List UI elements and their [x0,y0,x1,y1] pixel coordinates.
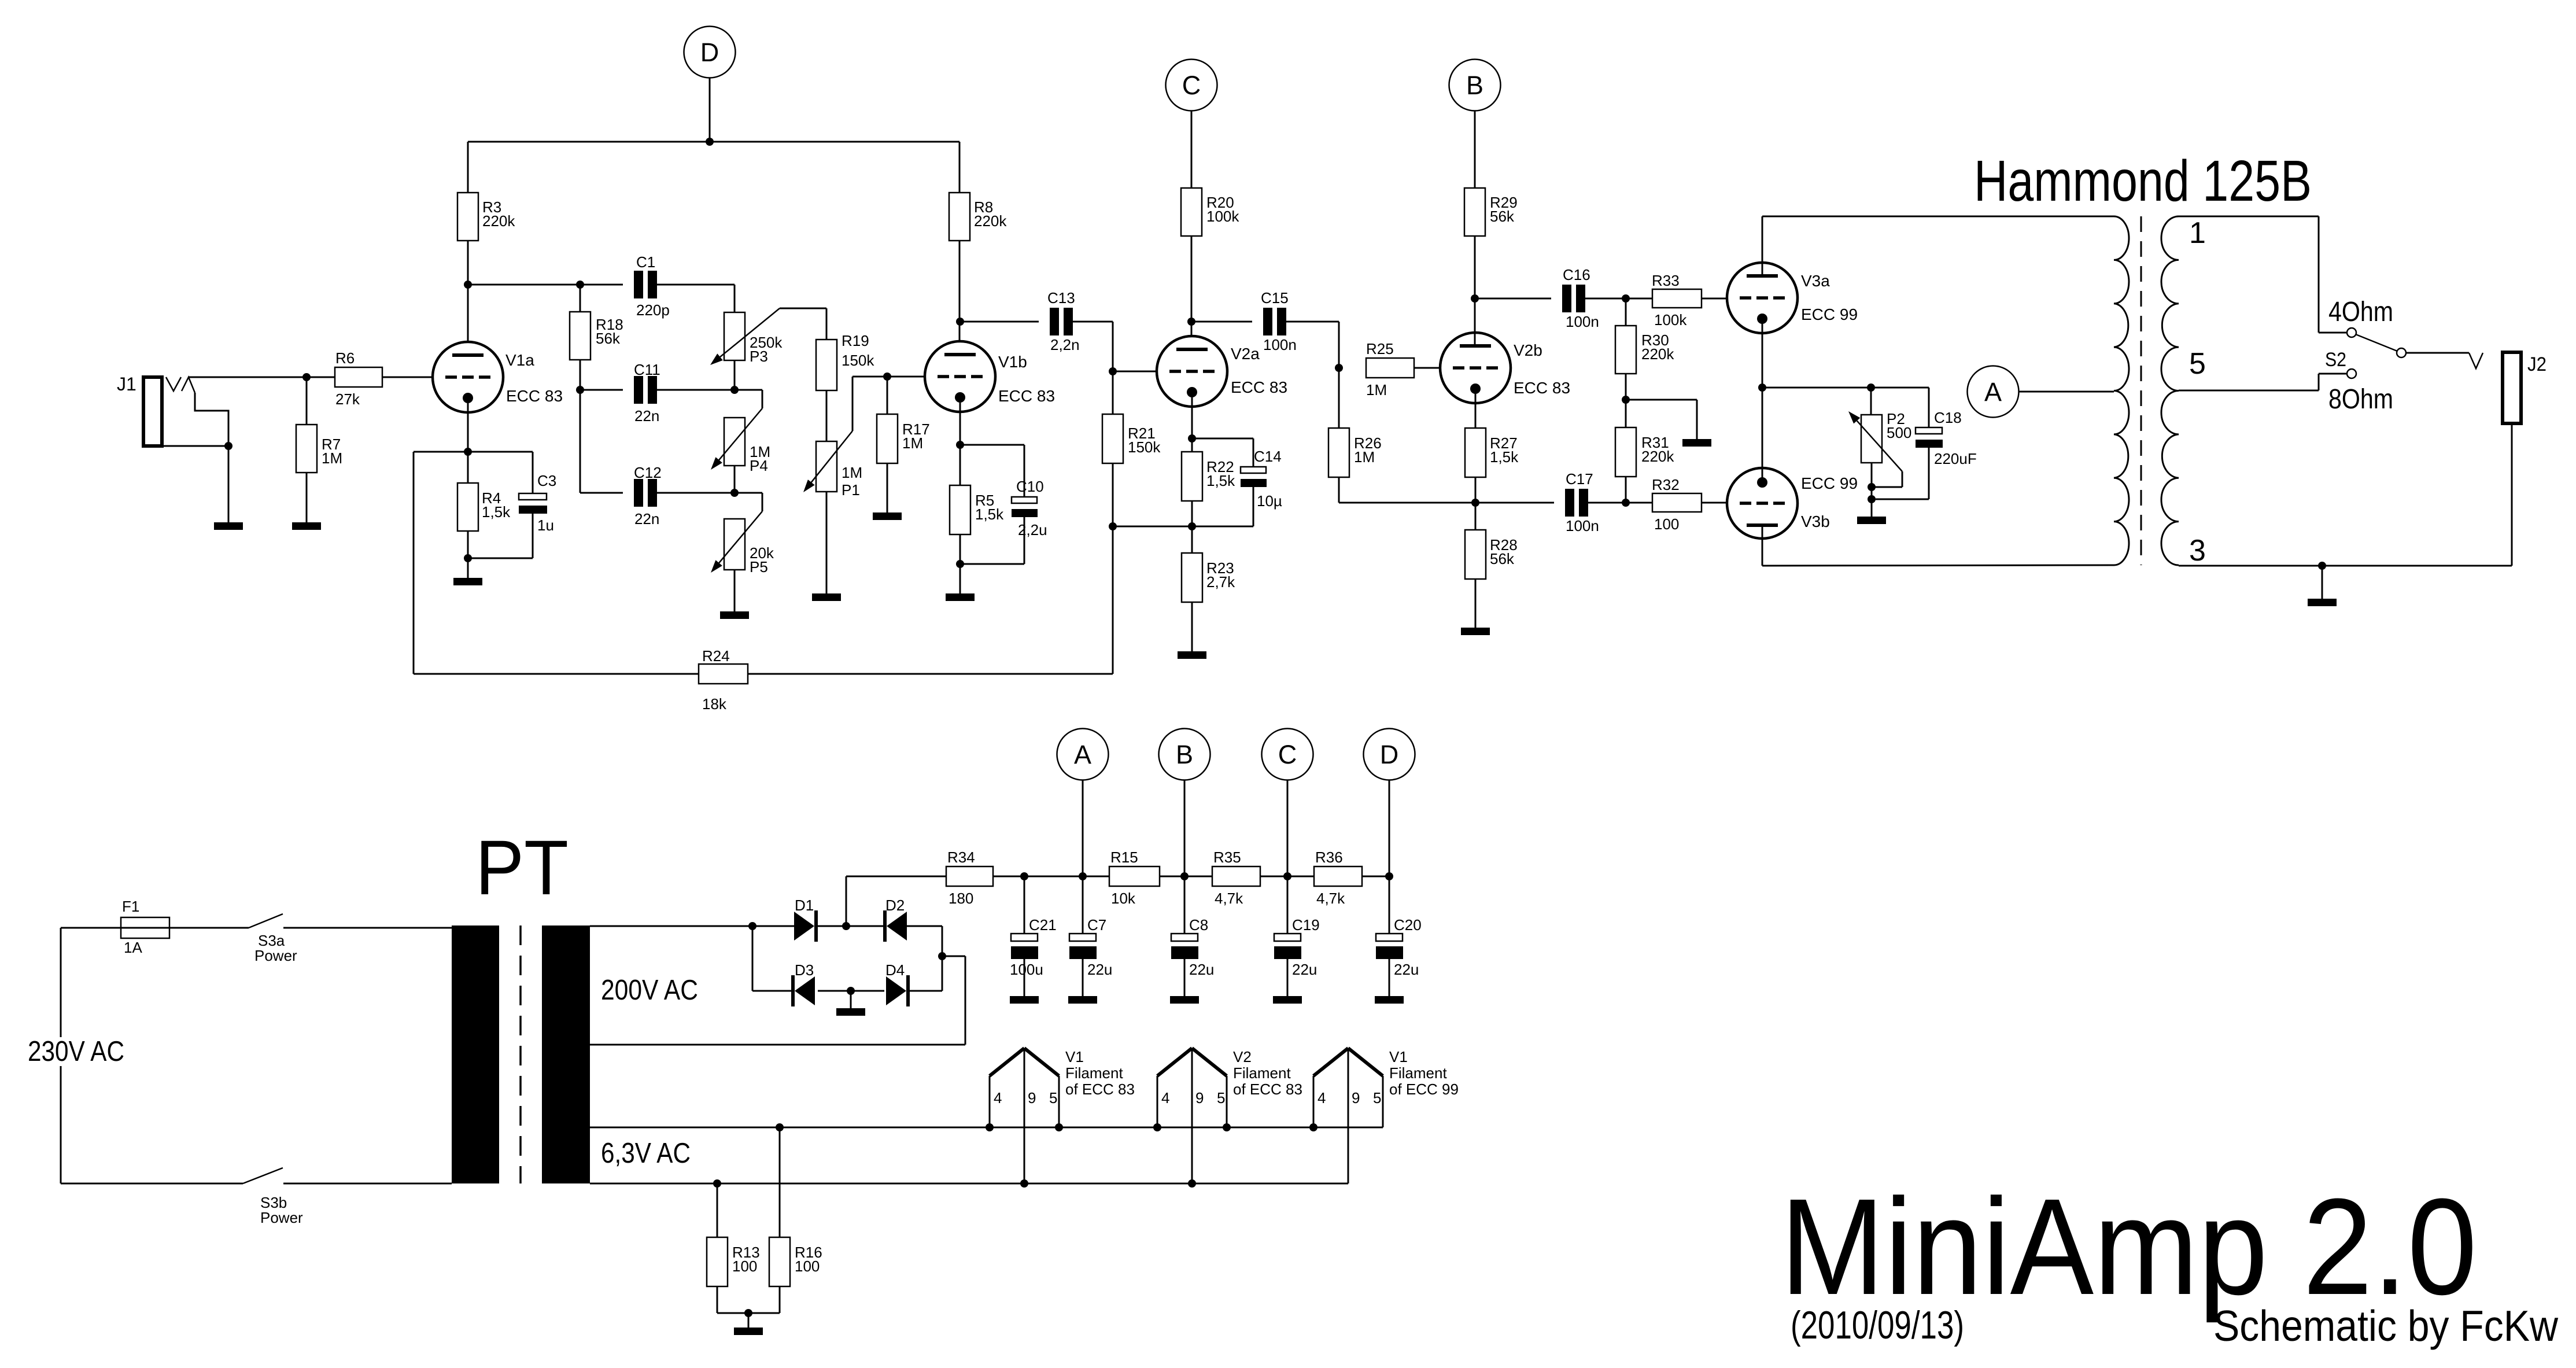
svg-text:5: 5 [1373,1089,1381,1107]
wire [826,390,828,441]
label V1 Filament of ECC 99 [1389,1048,1459,1098]
tube V1a [433,342,503,412]
label R20 100k [1206,194,1239,225]
label C1 220p [636,253,670,319]
label pins 4 9 5 [994,1089,1057,1107]
resistor R32 [1652,493,1702,512]
wire [959,403,961,485]
node [956,318,964,326]
svg-text:1A: 1A [124,939,142,956]
wire [590,925,795,927]
wire [1073,322,1169,371]
diode D4 [886,975,910,1006]
wire [1287,959,1289,996]
svg-text:V1: V1 [1065,1048,1084,1065]
svg-text:ECC 83: ECC 83 [506,387,563,405]
wire [1339,477,1554,503]
svg-text:22u: 22u [1189,961,1214,978]
svg-text:R24: R24 [702,647,730,665]
wire [1191,236,1193,349]
node [744,1309,752,1317]
svg-text:Filament: Filament [1065,1064,1123,1082]
node [1180,872,1189,880]
wire [580,360,581,493]
label R15 10k [1110,849,1138,907]
resistor R26 [1328,368,1349,477]
svg-text:10k: 10k [1111,890,1136,907]
svg-text:of ECC 99: of ECC 99 [1389,1081,1459,1098]
svg-text:4,7k: 4,7k [1215,890,1243,907]
svg-text:150k: 150k [842,352,874,369]
resistor R29 [1464,188,1485,236]
node [464,281,472,289]
wire [1160,876,1212,877]
wire [61,928,243,1183]
node [956,560,964,568]
label R16 100 [795,1244,822,1275]
label C7 22u [1087,916,1112,978]
svg-text:of ECC 83: of ECC 83 [1065,1081,1135,1098]
ground [1857,517,1886,524]
wire [162,445,228,447]
resistor R22 [1182,452,1202,501]
node [1309,1123,1317,1131]
wire [1184,959,1186,996]
svg-text:22n: 22n [634,510,659,528]
resistor R3 [457,193,478,241]
svg-text:500: 500 [1887,424,1911,441]
filament V1 (ECC 83) [990,1048,1059,1183]
label D1 [795,897,814,914]
svg-text:56k: 56k [1490,208,1515,225]
svg-text:100u: 100u [1010,961,1043,978]
transformer T1 primary winding [2114,216,2129,565]
wire [195,393,228,446]
node [1622,396,1630,404]
svg-text:8Ohm: 8Ohm [2328,384,2393,415]
wire [468,284,623,286]
wire [748,526,1113,674]
svg-text:S2: S2 [2325,349,2346,371]
resistor R27 [1465,428,1486,477]
wire [657,492,735,494]
label R7 1M [322,436,342,467]
label date 2010/09/13 [1791,1303,1964,1347]
capacitor C20 [1376,876,1403,959]
wire [960,517,1024,564]
wire [467,403,469,452]
wire [1702,502,1740,504]
svg-text:B: B [1466,71,1483,100]
label R21 150k [1128,425,1161,456]
ground [812,593,841,601]
node [1153,1123,1161,1131]
net label A (supply node A) [1968,366,2019,418]
svg-text:220k: 220k [482,212,515,230]
wire [1585,298,1652,300]
svg-text:56k: 56k [596,330,621,347]
label MiniAmp 2.0 title [1780,1170,2477,1323]
label R34 180 [947,849,975,907]
node [842,922,850,930]
wire [734,570,736,611]
svg-text:9: 9 [1028,1089,1036,1107]
label C3 1u [537,472,556,534]
label pin 5 [2189,347,2206,381]
capacitor C13 [1050,308,1073,335]
resistor R21 [1102,371,1123,463]
wire [1414,367,1453,369]
label R26 1M [1354,434,1382,466]
wire [1191,602,1193,651]
label R33 100k [1652,272,1687,329]
net label C (to node C) [1262,729,1313,780]
svg-text:1,5k: 1,5k [1206,472,1235,489]
svg-text:C21: C21 [1029,916,1057,934]
svg-text:Power: Power [260,1209,303,1226]
net label D (supply node D) [684,27,736,78]
svg-text:R33: R33 [1652,272,1680,289]
svg-text:V2a: V2a [1231,345,1260,363]
svg-text:56k: 56k [1490,550,1515,567]
node [706,138,714,146]
wire [468,514,533,558]
svg-text:C18: C18 [1934,409,1962,426]
svg-text:P3: P3 [750,348,768,365]
tube V3b [1727,468,1798,539]
wire [1876,448,1929,499]
wire [960,321,1039,323]
transformer T1 core [2140,216,2142,565]
svg-text:5: 5 [1217,1089,1225,1107]
svg-text:Schematic by FcKw: Schematic by FcKw [2213,1301,2559,1350]
resistor R25 [1366,358,1414,378]
resistor R30 [1615,298,1636,374]
svg-text:C17: C17 [1566,470,1593,488]
label V2a ECC 83 [1231,345,1287,396]
svg-text:of ECC 83: of ECC 83 [1233,1081,1302,1098]
capacitor C8 [1171,876,1198,959]
wire [2322,566,2323,599]
wire [1762,216,1763,276]
wire [580,492,623,494]
label pins 4 9 5 [1161,1089,1225,1107]
wire [734,466,736,493]
diode D3 [791,975,815,1006]
capacitor C21 [1011,876,1038,959]
svg-text:V1: V1 [1389,1048,1408,1065]
wire [959,564,961,593]
wire [1082,959,1084,996]
wire [1475,477,1477,530]
label D3 [795,961,814,979]
svg-text:C11: C11 [634,361,660,378]
wire [1082,780,1084,876]
svg-text:100: 100 [732,1258,757,1275]
label pin 3 [2189,534,2206,567]
label C15 100n [1261,289,1297,353]
svg-text:R35: R35 [1213,849,1241,866]
ground [214,522,243,530]
svg-text:A: A [1074,740,1091,769]
label P4 1M [750,443,770,474]
svg-text:R25: R25 [1366,340,1394,357]
wire [780,308,826,340]
svg-text:2,7k: 2,7k [1206,573,1235,591]
node [1188,434,1196,443]
wire [735,390,762,408]
svg-text:1M: 1M [842,464,862,481]
label pin 1 [2189,216,2206,250]
potentiometer P1 [803,431,852,492]
wire [382,377,445,378]
svg-text:D1: D1 [795,897,814,914]
wire [189,377,335,378]
label R25 1M [1366,340,1394,399]
diode D2 [883,910,907,942]
label pins 4 9 5 [1317,1089,1381,1107]
tube V1b [925,341,995,412]
node [883,373,891,381]
ground [2308,599,2337,606]
svg-text:A: A [1984,377,2002,407]
svg-text:1u: 1u [537,517,554,534]
svg-text:2,2n: 2,2n [1050,336,1080,353]
label P5 20k [750,544,774,576]
svg-text:ECC 83: ECC 83 [998,387,1055,405]
ground [836,1008,865,1016]
ground [1461,628,1490,635]
capacitor C11 [634,376,657,404]
wire [850,991,852,1008]
label R19 150k [842,332,874,369]
node [1758,384,1766,392]
node [2318,562,2326,570]
wire [1475,298,1551,300]
svg-text:C20: C20 [1394,916,1422,934]
label P1 1M [842,464,862,499]
label R6 27k [335,349,360,408]
resistor R20 [1181,188,1202,236]
svg-text:22u: 22u [1292,961,1317,978]
node [730,489,739,497]
wire [2179,374,2347,390]
label R18 56k [596,316,623,347]
wire [1389,780,1390,876]
svg-text:Hammond 125B: Hammond 125B [1974,149,2312,213]
label C13 2,2n [1047,289,1080,353]
svg-text:R6: R6 [335,349,355,367]
ground [1682,439,1711,447]
filament V2 (ECC 83) [1157,1048,1227,1183]
switch S3b [243,1168,283,1183]
svg-text:V1a: V1a [505,351,534,369]
svg-text:220p: 220p [636,301,670,319]
potentiometer P3 [710,308,780,365]
transformer PT core gap [519,925,522,1183]
node [1868,483,1876,491]
svg-text:V2: V2 [1233,1048,1252,1065]
label J1 [117,374,136,394]
ground [453,578,482,585]
label C11 22n [634,361,660,425]
svg-text:C8: C8 [1189,916,1208,934]
wire [1286,322,1339,368]
svg-text:C15: C15 [1261,289,1289,307]
label C17 100n [1566,470,1599,534]
svg-text:D: D [1380,740,1399,769]
label R32 100 [1652,476,1680,533]
wire [657,389,735,391]
net label B (to node B) [1159,729,1211,780]
svg-text:1M: 1M [902,434,923,452]
wire [2179,216,2347,333]
wire [580,389,623,391]
tube V2a [1157,336,1227,407]
wire [590,1127,1383,1129]
ground [720,611,749,619]
capacitor C14 [1192,438,1267,487]
potentiometer P5 [711,511,762,573]
label R23 2,7k [1206,559,1235,591]
svg-text:C13: C13 [1047,289,1075,307]
tube V3a [1727,263,1798,333]
svg-text:Power: Power [254,947,297,964]
wire [1024,959,1025,996]
label C12 22n [634,464,662,528]
resistor R5 [950,485,970,534]
label C19 22u [1292,916,1320,978]
wire [1191,397,1193,452]
label R29 56k [1490,194,1518,225]
wire [959,241,961,355]
node [1188,1179,1196,1188]
wire [735,493,762,511]
svg-text:B: B [1176,740,1193,769]
svg-text:200V AC: 200V AC [601,975,698,1006]
svg-text:1,5k: 1,5k [975,506,1004,523]
svg-text:D3: D3 [795,961,814,979]
wire [657,285,735,312]
wire [1626,400,1697,439]
wire [1475,579,1477,628]
svg-text:V2b: V2b [1514,341,1542,359]
label C20 22u [1394,916,1422,978]
wire [826,492,828,593]
svg-text:V3a: V3a [1801,272,1830,290]
wire [818,925,883,927]
capacitor C1 [634,271,657,298]
node [1020,1179,1028,1188]
node [1622,499,1630,507]
ground [1170,996,1199,1004]
label C14 10u [1254,448,1282,510]
wire [734,360,736,390]
wire [1762,527,1763,566]
svg-text:(2010/09/13): (2010/09/13) [1791,1303,1964,1347]
node [1385,872,1393,880]
net label D (to node D) [1364,729,1415,780]
node [1335,364,1343,372]
wire [467,241,469,355]
wire [1702,298,1740,300]
node [986,1123,994,1131]
wire [818,990,884,992]
resistor R4 [457,452,478,531]
svg-text:22u: 22u [1394,961,1419,978]
net label B (supply node B) [1449,60,1501,111]
resistor R36 [1314,866,1362,886]
node [1867,384,1875,392]
label R4 1,5k [482,489,511,521]
label F1 1A [122,898,142,956]
svg-text:C7: C7 [1087,916,1106,934]
wire [852,377,938,431]
ground [1068,996,1097,1004]
svg-text:J1: J1 [117,374,136,394]
wire [1474,236,1476,346]
wire [1625,477,1627,503]
svg-text:C10: C10 [1016,478,1044,495]
resistor R23 [1182,553,1202,602]
label 6,3V AC [601,1138,691,1169]
wire [467,558,469,578]
node [302,373,311,381]
wire [887,463,888,512]
label C8 22u [1189,916,1214,978]
resistor R35 [1212,866,1260,886]
label R3 220k [482,198,515,230]
svg-text:1,5k: 1,5k [1490,448,1519,466]
svg-text:5: 5 [2189,347,2206,381]
wire [1762,387,1929,389]
label R8 220k [974,198,1007,230]
resistor R6 [335,367,382,387]
svg-text:220k: 220k [1641,448,1674,465]
resistor R15 [1109,866,1160,886]
svg-text:C16: C16 [1563,266,1590,283]
wire [717,1286,780,1313]
node [464,554,472,562]
label V3b ECC 99 [1801,474,1858,530]
svg-text:P4: P4 [750,457,768,474]
wire [1762,318,1763,482]
resistor R34 [946,866,993,886]
ground [946,593,975,601]
label D4 [885,961,905,979]
svg-text:D: D [700,38,719,67]
svg-text:C1: C1 [636,253,655,271]
svg-text:180: 180 [949,890,973,907]
node [1187,318,1195,326]
svg-text:100n: 100n [1566,313,1599,330]
node [1868,495,1876,503]
node [576,281,584,289]
wire [907,990,942,992]
label V1 Filament of ECC 83 [1065,1048,1135,1098]
svg-text:220k: 220k [1641,345,1674,363]
label J2 [2527,353,2547,375]
resistor R24 [414,664,748,684]
svg-text:ECC 99: ECC 99 [1801,305,1858,323]
label 8Ohm [2328,384,2393,415]
resistor R18 [570,285,591,360]
svg-text:4,7k: 4,7k [1316,890,1345,907]
wire [1625,374,1627,427]
svg-text:1M: 1M [1366,381,1387,399]
label V1a ECC 83 [505,351,563,405]
svg-text:100k: 100k [1206,208,1239,225]
